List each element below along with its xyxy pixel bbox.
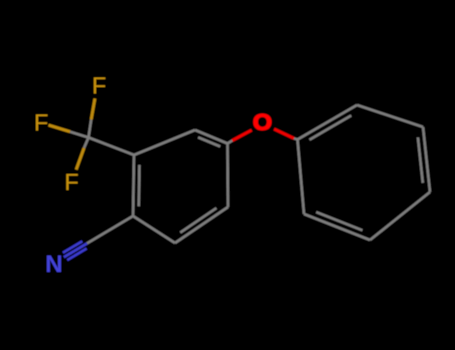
wire right phenyl inner double bond TR-R	[418, 137, 423, 183]
wire O-central bond red half	[232, 130, 251, 140]
wire central ring inner double bond BL-TL	[138, 165, 141, 206]
wire C-F left bond gray half	[70, 132, 88, 138]
wire central ring edge TR-BR	[226, 144, 229, 208]
wire right phenyl edge BL-L	[298, 140, 305, 215]
wire right phenyl edge L-top	[298, 105, 358, 140]
svg-text:F: F	[92, 73, 106, 99]
wire right phenyl inner double bond L-top	[310, 116, 352, 140]
wire central ring edge top-TR	[195, 130, 228, 144]
wire nitrile triple bond center line	[64, 243, 87, 257]
svg-text:O: O	[253, 110, 272, 136]
wire C-F lower bond gray half	[84, 138, 89, 149]
wire nitrile triple bond upper parallel line	[63, 241, 82, 253]
svg-text:F: F	[34, 110, 48, 136]
wire C-F top bond gold half	[91, 99, 95, 120]
wire central ring edge BL-TL	[133, 155, 134, 216]
wire central ring edge BR-bottom	[175, 207, 228, 243]
wire C-F left bond gold half	[49, 125, 71, 132]
wire central ring edge bottom-BL	[133, 216, 175, 243]
wire O-phenyl bond red half	[274, 129, 294, 138]
wire central ring inner double bond BR-bottom	[180, 208, 216, 233]
wire central ring inner double bond top-TR	[198, 137, 220, 146]
wire right phenyl edge bottom-BL	[304, 214, 370, 240]
wire C-F lower bond gold half	[76, 148, 84, 170]
wire right phenyl edge TR-R	[423, 127, 430, 192]
wire central ring edge TL-top	[134, 130, 195, 155]
wire bond nitrile C to ring BL	[87, 216, 133, 243]
wire right phenyl inner double bond bottom-BL	[316, 212, 362, 230]
wire right phenyl edge R-bottom	[370, 192, 430, 240]
wire O-central bond gray half	[228, 141, 233, 144]
wire bond CF3 carbon to ring TL	[89, 138, 135, 156]
wire nitrile triple bond lower parallel line	[67, 249, 86, 261]
svg-text:F: F	[64, 169, 78, 195]
wire right phenyl edge top-TR	[357, 105, 423, 127]
svg-text:N: N	[45, 251, 62, 278]
wire O-phenyl bond gray half	[294, 138, 298, 139]
wire C-F top bond gray half	[89, 120, 92, 138]
